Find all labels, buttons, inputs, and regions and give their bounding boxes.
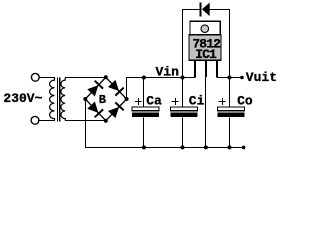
capacitor Ca wires [143, 78, 145, 148]
protection diode cathode bar [200, 2, 202, 16]
wire bridge right vertex up and right : Vin rail [127, 77, 195, 99]
bridge diode lower-left (points to bottom vertex) [87, 102, 103, 118]
svg-text:Co: Co [237, 94, 253, 109]
ground rail junction dot Ca [142, 145, 146, 149]
wire secondary bottom to bridge bottom vertex [65, 120, 106, 122]
transformer core [57, 78, 58, 122]
wire ground leg down to rail [205, 76, 207, 147]
junction dot bridge left vertex [83, 97, 87, 101]
plus sign Ci [172, 98, 179, 105]
capacitor Co wires (also diode right riser) [229, 9, 231, 147]
ground rail junction dot Ci [181, 145, 185, 149]
protection diode triangle (points left) [202, 3, 210, 17]
IC1 mounting hole [201, 25, 209, 33]
bridge diode upper-right (points to right vertex) [108, 80, 124, 96]
IC1 7812 package body [189, 35, 221, 61]
ground rail junction dot Co [228, 145, 232, 149]
junction dot bridge bottom vertex [104, 119, 108, 123]
junction dot bridge top vertex [104, 75, 108, 79]
wire bottom terminal to primary [39, 120, 55, 122]
wire bridge left vertex down to ground rail [85, 99, 87, 147]
IC1 pin 1 (input leg) [194, 60, 196, 77]
capacitor Ci wires (also diode left riser) [182, 9, 184, 147]
plus sign Co [219, 98, 226, 105]
protection diode top wire [183, 9, 231, 11]
bridge diode lower-right (points to right vertex) [108, 102, 124, 118]
ground rail (bottom) [85, 147, 244, 149]
svg-text:IC1: IC1 [195, 47, 217, 62]
svg-text:Vuit: Vuit [246, 70, 277, 85]
terminal top-left [31, 73, 39, 81]
plus sign Ca [135, 98, 142, 105]
svg-text:230V~: 230V~ [3, 91, 42, 106]
IC1 pin 2 (ground leg) [205, 60, 207, 77]
svg-text:B: B [99, 93, 106, 107]
output wire to Vuit [217, 76, 243, 78]
IC1 pin 3 (output leg) [216, 60, 218, 77]
wire top terminal to primary [39, 77, 55, 79]
capacitor Co plates [218, 107, 245, 111]
transformer secondary winding [61, 78, 65, 121]
svg-text:Ci: Ci [189, 94, 205, 109]
junction dot output / Co / diode [228, 76, 232, 80]
terminal bottom-left [31, 116, 39, 124]
wire secondary top to bridge top vertex [65, 77, 106, 79]
svg-text:Ca: Ca [146, 94, 162, 109]
transformer primary winding [50, 78, 55, 121]
IC1 tab with mounting hole [190, 21, 220, 35]
ground rail end dot [242, 146, 246, 150]
svg-text:Vin: Vin [156, 65, 180, 80]
capacitor Ca plates [132, 107, 159, 111]
bridge rectifier B : diamond [85, 77, 126, 120]
terminal dot Vuit [240, 76, 244, 80]
ground rail junction dot IC ground [204, 145, 208, 149]
junction dot bridge right vertex [125, 97, 129, 101]
junction dot Vin / Ci / diode riser [181, 76, 185, 80]
bridge diode upper-left (anode at left vertex, points to top vertex) [87, 81, 103, 97]
junction dot Ca top [142, 76, 146, 80]
capacitor Ci plates [171, 107, 198, 111]
